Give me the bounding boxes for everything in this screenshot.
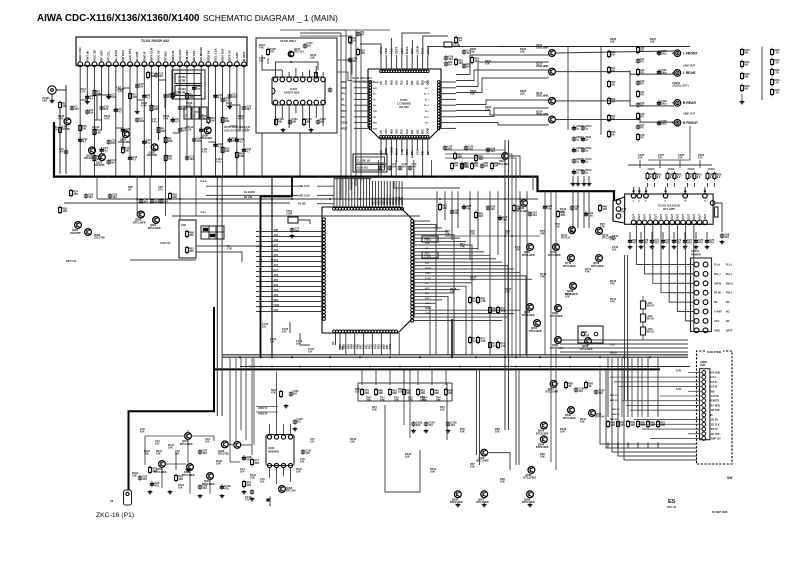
capacitor C101	[301, 449, 312, 456]
svg-text:FL_I: FL_I	[425, 88, 429, 90]
IC401 pin 4	[288, 463, 292, 467]
svg-text:SM CTL: SM CTL	[171, 50, 175, 61]
junction	[515, 366, 517, 368]
svg-text:10K: 10K	[310, 56, 315, 60]
resistor R67	[469, 296, 478, 305]
junction	[260, 198, 262, 200]
wire	[209, 479, 211, 494]
IC701 right pin 24	[411, 298, 414, 301]
wire	[173, 132, 180, 134]
svg-text:BEAD: BEAD	[647, 317, 654, 321]
svg-text:FLAP IN: FLAP IN	[710, 395, 719, 398]
svg-text:B+ 8.5V: B+ 8.5V	[114, 50, 118, 61]
IC201 pin 4	[648, 220, 653, 225]
svg-text:104: 104	[612, 248, 617, 252]
IC601 top pin 74	[406, 70, 409, 73]
svg-text:10K: 10K	[485, 108, 490, 112]
svg-text:AS3: AS3	[274, 264, 279, 267]
wire	[414, 251, 484, 253]
wire	[345, 30, 347, 195]
svg-text:TRI: TRI	[373, 117, 377, 119]
svg-text:OUT: OUT	[639, 214, 641, 219]
wire	[627, 357, 629, 417]
wire	[414, 292, 454, 294]
svg-text:47K: 47K	[470, 232, 475, 236]
wire	[230, 461, 240, 463]
IC601 left pin 2	[369, 84, 372, 87]
wire	[276, 62, 319, 70]
CN901 pin 8	[702, 404, 706, 408]
junction	[409, 369, 411, 371]
svg-text:AD4: AD4	[274, 294, 279, 297]
junction	[649, 356, 651, 358]
svg-text:BR3 5V: BR3 5V	[612, 409, 620, 411]
wire	[414, 261, 502, 263]
svg-text:2SC2785: 2SC2785	[94, 236, 105, 240]
transistor Q107	[288, 51, 294, 57]
svg-text:ES: ES	[668, 499, 676, 505]
IC201 pin 14	[703, 220, 708, 225]
wire	[445, 235, 540, 237]
svg-text:BR4 5V: BR4 5V	[612, 413, 620, 416]
svg-text:22K: 22K	[380, 398, 385, 402]
junction	[632, 190, 634, 192]
svg-text:BR2 5V: BR2 5V	[610, 400, 618, 402]
svg-text:1u: 1u	[585, 127, 588, 131]
wire	[295, 68, 297, 77]
svg-text:104: 104	[352, 59, 357, 63]
IC701 top pin 7	[350, 207, 353, 210]
capacitor C79	[388, 165, 392, 170]
svg-text:X1400 ONLY: X1400 ONLY	[280, 39, 297, 43]
capacitor C45	[444, 61, 448, 66]
svg-text:NC: NC	[710, 415, 714, 417]
tuner pin 6	[113, 50, 118, 66]
junction	[291, 198, 293, 200]
wire	[256, 311, 322, 313]
wire	[555, 355, 557, 470]
svg-text:10K: 10K	[355, 390, 360, 394]
IC701 top pin 5	[344, 207, 347, 210]
wire	[489, 191, 491, 270]
svg-text:L REAR: L REAR	[683, 71, 696, 75]
wire	[406, 55, 408, 70]
IC201 pin 3	[642, 220, 647, 225]
wire	[642, 296, 644, 301]
IC601 left pin 10	[369, 107, 372, 110]
IC201 top pin	[663, 194, 668, 199]
wire	[469, 191, 471, 260]
resistor R14	[122, 146, 125, 155]
junction	[271, 259, 273, 261]
svg-text:ZKC-16: ZKC-16	[667, 505, 677, 509]
wire	[97, 95, 109, 120]
wire	[624, 255, 626, 400]
svg-text:47K: 47K	[470, 278, 475, 282]
wire	[366, 179, 368, 208]
svg-text:SW: SW	[727, 476, 733, 480]
wire	[555, 51, 674, 53]
electrolytic capacitor C88	[462, 204, 472, 211]
IC701 bottom pin 8	[353, 330, 356, 333]
electrolytic capacitor C90	[498, 215, 508, 222]
wire	[93, 67, 95, 176]
svg-text:AD3: AD3	[274, 289, 279, 292]
wire	[669, 225, 693, 302]
IC601 right pin 57	[437, 118, 440, 121]
wire	[414, 268, 514, 270]
wire	[395, 181, 397, 207]
wire	[350, 36, 352, 190]
wire	[695, 232, 697, 238]
IC701 bottom pin 20	[389, 330, 392, 333]
junction	[359, 198, 361, 200]
wire	[187, 439, 189, 463]
IC701 right pin 15	[411, 268, 414, 271]
junction	[409, 176, 411, 178]
ground	[186, 468, 191, 472]
resistor R55	[706, 172, 715, 181]
transistor Q701	[522, 244, 535, 257]
svg-text:SW3: SW3	[636, 442, 640, 448]
capacitor C38	[303, 43, 307, 48]
svg-text:4.7K: 4.7K	[186, 128, 192, 132]
wire	[660, 395, 702, 397]
junction	[260, 176, 262, 178]
wire	[414, 302, 436, 304]
wire	[684, 232, 686, 238]
connector CN901	[700, 361, 710, 440]
IC701 right pin 19	[411, 281, 414, 284]
wire	[276, 424, 278, 435]
wire	[511, 154, 513, 357]
wire	[322, 105, 324, 126]
IC701 bottom pin 10	[359, 330, 362, 333]
svg-text:LD: LD	[426, 151, 430, 155]
wire	[665, 187, 667, 194]
resistor R17	[93, 128, 96, 137]
svg-text:47u: 47u	[158, 188, 163, 192]
electrolytic capacitor C94	[584, 211, 594, 218]
wire	[288, 72, 290, 77]
IC601 left pin 3	[369, 86, 372, 89]
wire	[588, 176, 590, 182]
svg-text:JP+: JP+	[341, 93, 346, 96]
wire	[396, 55, 398, 70]
wire	[618, 370, 697, 456]
CN201 pin 11	[694, 309, 699, 314]
svg-text:104: 104	[240, 470, 245, 474]
svg-text:47K: 47K	[610, 300, 615, 304]
capacitor C7	[163, 93, 172, 100]
svg-text:100: 100	[611, 100, 616, 104]
IC201 top pin	[703, 194, 708, 199]
IC701 top pin 11	[362, 207, 365, 210]
IC701 right pin 29	[411, 316, 414, 319]
IC701 right pin 25	[411, 302, 414, 305]
ground	[446, 429, 451, 433]
svg-text:10K: 10K	[470, 92, 475, 96]
wire	[422, 138, 424, 175]
wire	[96, 177, 98, 199]
transistor Q104	[118, 131, 131, 144]
wire	[288, 105, 290, 128]
IC601 top pin 65	[382, 70, 385, 73]
svg-text:OUT: OUT	[694, 214, 696, 219]
svg-text:OUT: OUT	[650, 214, 652, 219]
wire	[560, 339, 688, 341]
svg-text:10K: 10K	[610, 423, 615, 427]
wire	[377, 160, 379, 176]
svg-text:LCD STB: LCD STB	[710, 410, 720, 412]
tuner pin 19	[206, 50, 211, 66]
junction	[329, 366, 331, 368]
junction	[539, 366, 541, 368]
resistor R49	[646, 172, 655, 181]
svg-text:4.7: 4.7	[204, 129, 208, 133]
svg-text:BK 23N: BK 23N	[244, 197, 253, 199]
svg-text:CLK: CLK	[407, 129, 409, 134]
svg-text:10K: 10K	[306, 120, 311, 124]
wire	[390, 55, 392, 70]
svg-text:DTC114: DTC114	[602, 236, 612, 240]
wire	[403, 370, 405, 425]
wire	[440, 81, 456, 83]
IC201 pin 11	[686, 220, 691, 225]
wire	[395, 160, 397, 176]
wire	[402, 33, 430, 55]
IC601 bottom pin 30	[395, 136, 398, 139]
junction	[271, 366, 273, 368]
junction	[704, 190, 706, 192]
svg-text:10K: 10K	[560, 213, 565, 217]
capacitor C86	[159, 198, 169, 205]
CN201 pin 15	[694, 328, 699, 333]
svg-text:BCK: BCK	[423, 129, 425, 134]
junction	[349, 176, 351, 178]
ground	[672, 245, 677, 249]
wire	[256, 291, 322, 293]
capacitor C103	[411, 421, 422, 428]
resistor R44	[771, 78, 774, 87]
svg-text:10K: 10K	[744, 63, 749, 67]
wire	[560, 351, 688, 353]
svg-text:4.7K: 4.7K	[163, 117, 169, 121]
IC601 bottom pin 28	[390, 136, 393, 139]
svg-text:1u: 1u	[576, 127, 579, 131]
svg-text:BR5 5V: BR5 5V	[610, 419, 618, 421]
IA101 pin 14	[287, 77, 292, 82]
svg-text:ACC: ACC	[714, 320, 720, 323]
IC701 left pin 25	[322, 300, 325, 303]
svg-text:RFO: RFO	[405, 148, 409, 155]
resistor R4	[157, 126, 165, 135]
IC601 top pin 70	[395, 70, 398, 73]
IC601 right pin 46	[437, 86, 440, 89]
junction	[489, 366, 491, 368]
svg-text:47K: 47K	[620, 210, 625, 214]
junction	[291, 356, 293, 358]
svg-text:CLK: CLK	[407, 80, 409, 85]
ground	[456, 503, 461, 507]
wire	[414, 278, 532, 280]
svg-text:FM ANT: FM ANT	[185, 50, 189, 61]
option block outline X1400 only	[256, 38, 337, 133]
wire	[385, 55, 387, 70]
ground	[683, 245, 688, 249]
IC IC601 LC78626E	[368, 69, 441, 139]
IC601 bottom pin 33	[403, 136, 406, 139]
CN901 pin 2	[702, 375, 706, 379]
wire	[149, 177, 151, 199]
svg-text:CF101: CF101	[178, 75, 186, 79]
wire	[374, 181, 376, 207]
svg-text:P-ON: P-ON	[425, 278, 431, 280]
wire	[345, 179, 347, 208]
IC601 top pin 2	[427, 70, 430, 73]
resistor R36	[637, 46, 640, 55]
svg-text:104: 104	[111, 95, 116, 99]
transistor Q404	[202, 473, 215, 486]
IC701 top pin 19	[386, 207, 389, 210]
wire	[560, 347, 688, 349]
resistor R20	[303, 118, 306, 127]
IC701 top pin 24	[401, 207, 404, 210]
svg-text:X136 SEL: X136 SEL	[357, 167, 369, 170]
svg-text:10K: 10K	[405, 455, 410, 459]
svg-text:TRO: TRO	[341, 110, 346, 113]
wire	[401, 55, 403, 70]
svg-text:104: 104	[142, 477, 147, 481]
svg-text:A5B 5.0V: A5B 5.0V	[298, 184, 310, 188]
capacitor C107	[594, 389, 605, 396]
svg-text:10K: 10K	[520, 50, 525, 54]
svg-text:104: 104	[202, 451, 207, 455]
wire	[706, 232, 708, 238]
wire	[394, 181, 460, 188]
wire	[309, 105, 311, 128]
tuner pin 18	[199, 46, 204, 66]
svg-text:JP-: JP-	[341, 98, 345, 101]
wire	[414, 276, 526, 355]
IC201 pin 9	[675, 220, 680, 225]
IC701 right pin 3	[411, 226, 414, 229]
IC701 top pin 16	[377, 207, 380, 210]
svg-text:100: 100	[611, 133, 616, 137]
transistor Q302	[85, 229, 92, 236]
capacitor C108	[289, 391, 293, 396]
svg-text:LINE OUT: LINE OUT	[683, 112, 696, 116]
svg-text:4.7u: 4.7u	[216, 160, 222, 164]
svg-text:AS6: AS6	[274, 249, 279, 252]
svg-text:FL(-): FL(-)	[726, 264, 732, 267]
svg-text:BK(+): BK(+)	[726, 282, 733, 285]
svg-text:104: 104	[262, 325, 267, 329]
svg-text:TE_O: TE_O	[424, 117, 429, 119]
wire	[144, 436, 146, 465]
wire	[456, 100, 549, 105]
resistor R42	[771, 58, 774, 67]
IC601 left pin 9	[369, 104, 372, 107]
svg-text:AS7: AS7	[274, 244, 279, 247]
svg-text:SD OUT: SD OUT	[121, 50, 125, 61]
IC201 top pin	[631, 194, 636, 199]
svg-text:104: 104	[260, 480, 265, 484]
ground	[650, 245, 655, 249]
wire	[354, 87, 369, 89]
wire	[196, 245, 260, 247]
resistor R48	[491, 162, 494, 171]
wire	[302, 105, 304, 125]
wire	[59, 109, 61, 174]
IC201 pin 12	[692, 220, 697, 225]
transistor Q704	[522, 304, 535, 317]
svg-text:47K: 47K	[73, 192, 78, 196]
wire	[300, 36, 352, 44]
svg-text:SW0: SW0	[606, 442, 610, 448]
wire	[634, 419, 702, 421]
svg-text:6F SEP 1996: 6F SEP 1996	[712, 510, 728, 514]
crystal X701	[288, 217, 298, 223]
tuner pin 24	[242, 52, 247, 67]
wire	[345, 333, 347, 355]
wire	[315, 105, 317, 118]
svg-text:17B: 17B	[227, 247, 232, 251]
ground	[582, 182, 587, 186]
svg-text:104: 104	[140, 119, 145, 123]
svg-text:4.7K: 4.7K	[58, 117, 64, 121]
wire	[445, 157, 516, 159]
wire	[694, 183, 696, 187]
resistor R94	[280, 390, 283, 399]
wire	[440, 110, 456, 112]
svg-text:PL_O: PL_O	[424, 94, 429, 96]
CN201 pin 12	[703, 309, 708, 314]
svg-text:10K: 10K	[610, 40, 615, 44]
svg-text:TU8-L: TU8-L	[200, 212, 207, 214]
wire	[451, 191, 453, 240]
wire	[638, 423, 702, 425]
svg-text:AD1: AD1	[274, 279, 279, 282]
IC701 bottom pin 1	[333, 330, 336, 333]
svg-text:A5B3 5V: A5B3 5V	[258, 413, 268, 416]
wire	[476, 370, 478, 455]
electrolytic capacitor C56	[572, 125, 576, 131]
transistor Q601	[497, 153, 510, 166]
svg-text:OUT: OUT	[634, 214, 636, 219]
svg-text:NC: NC	[726, 320, 730, 323]
svg-text:2.2: 2.2	[697, 175, 701, 179]
wire	[440, 122, 456, 124]
IC701 top pin 9	[356, 207, 359, 210]
svg-text:DET 5.0V: DET 5.0V	[66, 260, 77, 263]
wire	[456, 123, 549, 126]
wire	[371, 181, 373, 207]
svg-text:COM3: COM3	[400, 196, 404, 205]
discriminator CF103	[184, 107, 191, 119]
resistor R74	[497, 341, 506, 350]
capacitor C3	[106, 93, 115, 100]
svg-text:22K: 22K	[408, 398, 413, 402]
wire	[414, 307, 430, 355]
junction	[403, 369, 405, 371]
svg-text:AGND: AGND	[389, 147, 393, 155]
resistor R19	[275, 118, 278, 127]
capacitor C40	[444, 55, 454, 62]
IA101 pin 4	[294, 100, 299, 105]
ground	[85, 100, 90, 104]
CN901 pin 5	[702, 389, 706, 393]
